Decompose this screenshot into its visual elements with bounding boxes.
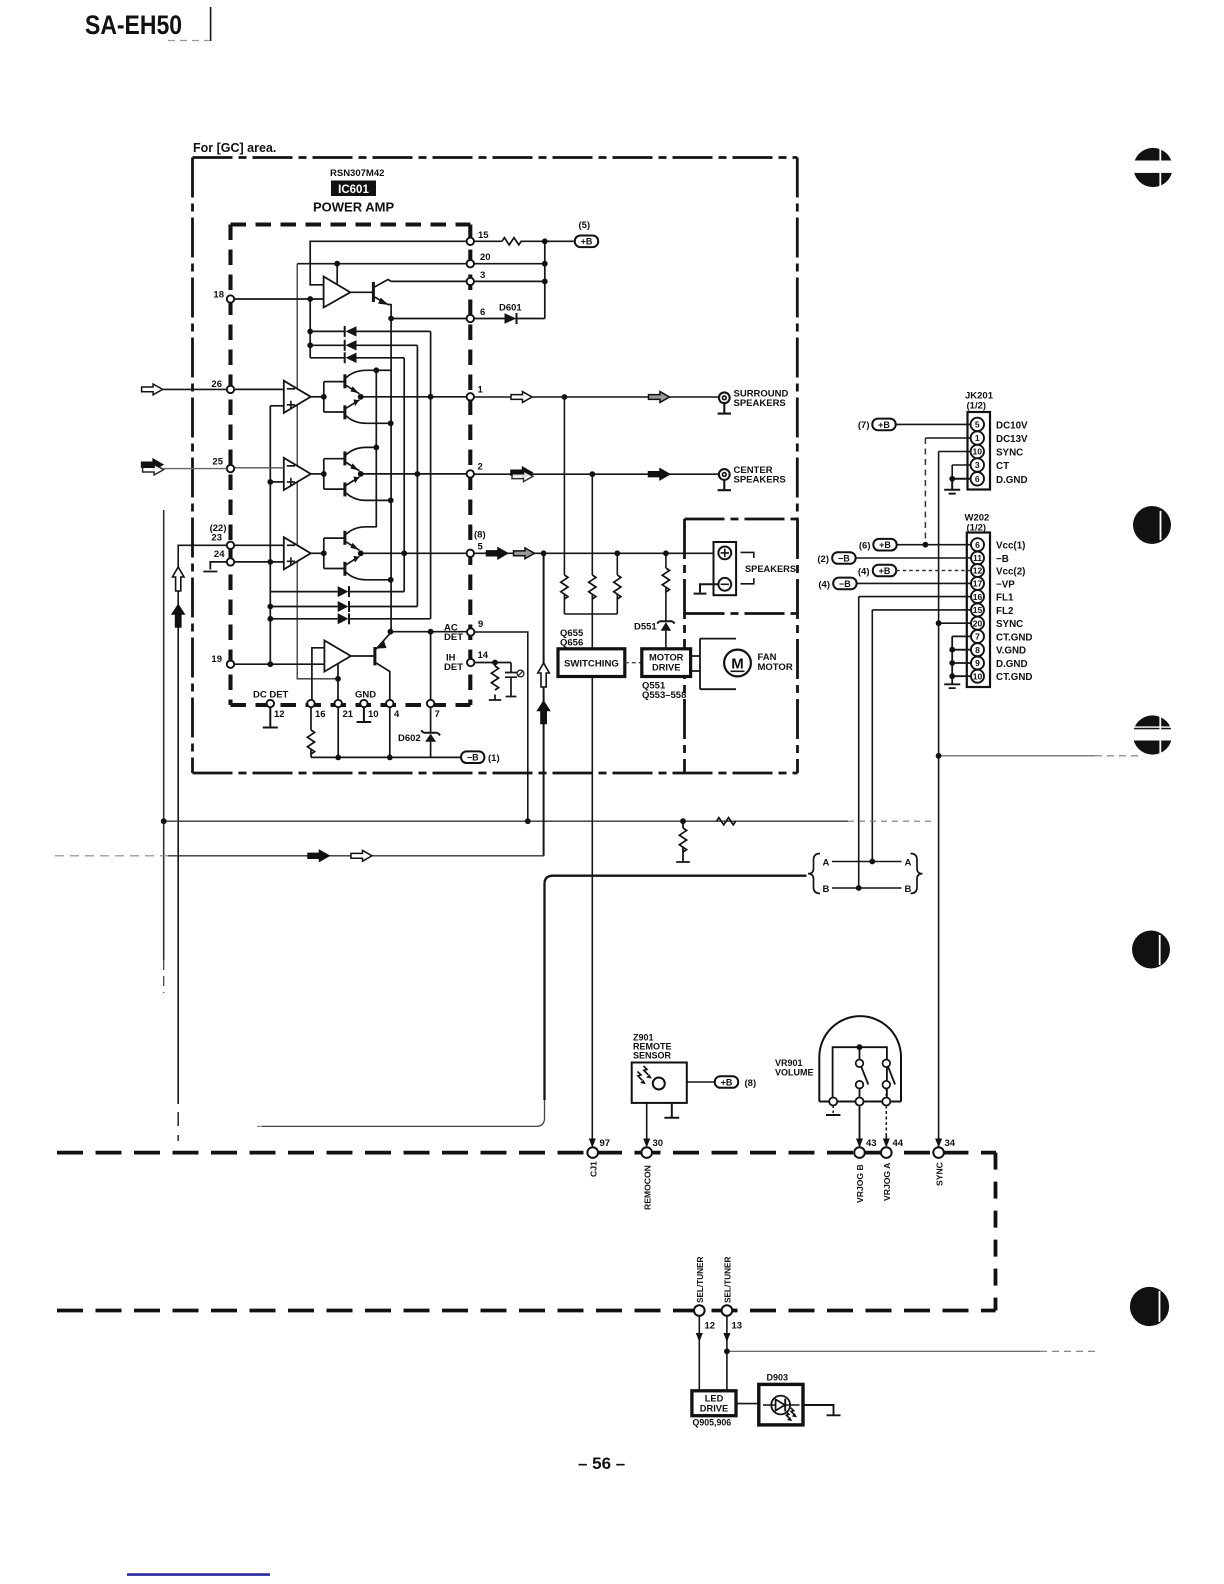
sensor element bbox=[653, 1078, 665, 1090]
wire pin16 to resistor bbox=[310, 707, 312, 757]
label bracket SPEAKERS bbox=[741, 552, 754, 583]
svg-text:DC DET: DC DET bbox=[253, 690, 289, 701]
svg-text:D601: D601 bbox=[499, 303, 522, 314]
junction top center bbox=[857, 1044, 863, 1050]
wire +B to JK201 pin5 bbox=[896, 423, 971, 425]
remote sensor Z901 body bbox=[632, 1063, 687, 1103]
junction row1 R1 bbox=[562, 394, 568, 400]
wire pin6 row (inside) bbox=[391, 318, 470, 320]
junction pin24 rail bbox=[267, 559, 273, 565]
arrow line B black bbox=[308, 850, 329, 861]
junction pin13 branch bbox=[724, 1348, 730, 1354]
svg-text:(6): (6) bbox=[859, 541, 871, 552]
wire JK201 pin10 SYNC long drop bbox=[939, 452, 971, 1148]
registration mark 5 (solid circle) bbox=[1130, 1287, 1169, 1326]
svg-text:5: 5 bbox=[478, 542, 484, 553]
feedback rail x=430.6 bbox=[430, 331, 432, 618]
svg-text:23: 23 bbox=[211, 533, 222, 544]
wire Z901 to +B bbox=[687, 1081, 715, 1083]
arrow up black on trunk bbox=[538, 702, 550, 724]
svg-text:25: 25 bbox=[212, 457, 223, 468]
arrow row1 a bbox=[511, 392, 532, 403]
supply rail x=376.3 bbox=[375, 370, 377, 527]
junction ch3 lower col bbox=[388, 577, 394, 583]
arrow into pin 26 bbox=[142, 384, 163, 395]
wire pin12 to LED DRIVE bbox=[698, 1316, 700, 1391]
svg-text:20: 20 bbox=[480, 252, 491, 263]
pin 14 bbox=[467, 659, 474, 666]
capacitor note symbol bbox=[517, 670, 524, 677]
svg-text:LED: LED bbox=[705, 1394, 724, 1404]
W202 pin 12 bbox=[971, 564, 984, 577]
svg-text:DC10V: DC10V bbox=[996, 421, 1028, 432]
VR901 dome body bbox=[819, 1016, 901, 1101]
svg-text:SA-EH50: SA-EH50 bbox=[85, 10, 182, 40]
ground stub at pin24 bbox=[203, 562, 227, 572]
svg-text:24: 24 bbox=[214, 549, 225, 560]
diode D551 bbox=[657, 621, 675, 630]
arrow row1 b bbox=[649, 392, 670, 403]
svg-text:11: 11 bbox=[973, 553, 982, 563]
svg-text:34: 34 bbox=[945, 1138, 956, 1149]
junction ch2 lower col bbox=[388, 498, 394, 504]
svg-text:SYNC: SYNC bbox=[996, 619, 1023, 630]
W202 pin 7 bbox=[971, 630, 984, 643]
svg-text:V.GND: V.GND bbox=[996, 646, 1026, 657]
svg-text:POWER AMP: POWER AMP bbox=[313, 200, 394, 215]
wire output row 1 (pin1 to SURROUND) bbox=[474, 396, 719, 398]
svg-text:SPEAKERS: SPEAKERS bbox=[745, 563, 796, 574]
wire channel-1 output row to pin 1 bbox=[361, 396, 467, 398]
svg-text:10: 10 bbox=[973, 671, 983, 681]
ground at VR901 left pin bbox=[832, 1106, 834, 1115]
junction line A / AC DET bbox=[525, 818, 531, 824]
wire op-amp 3 output bbox=[311, 552, 324, 554]
svg-text:REMOCON: REMOCON bbox=[642, 1165, 652, 1210]
arrow row5 open bbox=[514, 548, 535, 559]
resistor bus to SWITCHING bbox=[564, 614, 617, 649]
svg-text:26: 26 bbox=[211, 379, 222, 390]
svg-text:43: 43 bbox=[866, 1138, 877, 1149]
svg-text:RSN307M42: RSN307M42 bbox=[330, 168, 384, 179]
junction pin5 trunk bbox=[541, 550, 547, 556]
svg-text:20: 20 bbox=[973, 618, 983, 628]
svg-text:3: 3 bbox=[480, 270, 485, 281]
svg-text:(8): (8) bbox=[745, 1078, 757, 1089]
svg-text:9: 9 bbox=[478, 619, 483, 630]
svg-text:SYNC: SYNC bbox=[934, 1162, 944, 1186]
wire channel-2 output row to pin 2 bbox=[361, 473, 467, 475]
SPEAKERS connector body bbox=[714, 542, 737, 595]
junction A row bbox=[869, 859, 875, 865]
arrow into pin 25 (black over open) bbox=[142, 459, 163, 470]
svg-text:Q553–558: Q553–558 bbox=[642, 690, 686, 701]
LED DRIVE block bbox=[692, 1391, 736, 1416]
op-amp channel 3 bbox=[284, 537, 311, 569]
junction Q2 collector bbox=[388, 629, 394, 635]
junction dots right side bbox=[923, 476, 956, 759]
IC601 reference designator (inverted) bbox=[331, 181, 376, 197]
VR901 base pin mid bbox=[856, 1098, 864, 1106]
svg-text:10: 10 bbox=[368, 709, 379, 720]
pin 30 bbox=[641, 1147, 652, 1158]
pin 10 / GND bbox=[360, 700, 367, 707]
svg-text:MOTOR: MOTOR bbox=[649, 653, 684, 663]
junction row5 R4 bbox=[663, 550, 669, 556]
wire SWITCHING down to pin 97 bbox=[591, 677, 593, 1147]
wire A1 output to Q1 base bbox=[350, 291, 373, 293]
output stage splitter channel 3 bbox=[324, 538, 345, 568]
junction -B bus pin21 bbox=[335, 755, 341, 761]
registration mark 4 (solid circle) bbox=[1132, 931, 1170, 969]
connector JK201 body bbox=[968, 412, 991, 490]
svg-text:SEL/TUNER: SEL/TUNER bbox=[724, 1257, 733, 1303]
svg-text:16: 16 bbox=[315, 709, 326, 720]
svg-text:(1): (1) bbox=[488, 753, 500, 764]
diode D601 bbox=[505, 313, 517, 324]
svg-text:A: A bbox=[905, 857, 912, 868]
svg-text:−B: −B bbox=[996, 554, 1009, 565]
svg-text:14: 14 bbox=[478, 650, 489, 661]
SWITCHING block bbox=[558, 649, 625, 677]
svg-text:1: 1 bbox=[975, 433, 980, 443]
dashed boundary top (y=1152.6) bbox=[57, 1151, 996, 1155]
svg-text:A: A bbox=[823, 857, 830, 868]
wire contact2 to base (dotted) bbox=[885, 1089, 887, 1098]
op-amp channel 2 bbox=[284, 458, 311, 490]
junction B row bbox=[856, 885, 862, 891]
pin 44 bbox=[881, 1147, 892, 1158]
brace right bbox=[911, 854, 923, 894]
pin 19 bbox=[227, 661, 234, 668]
svg-text:5: 5 bbox=[975, 420, 980, 430]
svg-text:7: 7 bbox=[435, 709, 440, 720]
svg-text:97: 97 bbox=[600, 1138, 611, 1149]
junction Q1 emitter pin6 bbox=[388, 316, 394, 322]
wire speakers minus to ground bbox=[694, 584, 719, 593]
arrow up black on pin23 feed bbox=[172, 605, 184, 627]
pin 23 / (22) bbox=[227, 542, 234, 549]
W202 pin 17 bbox=[971, 577, 984, 590]
svg-text:18: 18 bbox=[213, 290, 224, 301]
junction ch1 fb rail bbox=[428, 394, 434, 400]
wire AC DET to line A bbox=[474, 632, 527, 821]
svg-text:−VP: −VP bbox=[996, 579, 1015, 590]
CENTER SPEAKERS jack bbox=[718, 469, 731, 490]
pin 9 bbox=[467, 628, 474, 635]
switch contact 2 upper bbox=[883, 1060, 891, 1068]
wire Vcc(2) row (dotted) bbox=[896, 570, 971, 572]
junction rail376 top bbox=[373, 367, 379, 373]
resistor R2 drop from row2 bbox=[591, 474, 593, 614]
wire pin7 branch from AC DET row bbox=[430, 632, 432, 703]
transistor upper (channel 1) bbox=[343, 374, 346, 388]
title separator vertical line bbox=[210, 7, 212, 41]
wire FL1 row and drop to B bus bbox=[859, 597, 971, 888]
wire op-amp 2 output bbox=[311, 473, 324, 475]
resistor (IH DET) bbox=[491, 666, 498, 690]
wire AC DET row bbox=[390, 631, 466, 633]
junction pin3 rail bbox=[542, 279, 548, 285]
svg-text:DRIVE: DRIVE bbox=[652, 663, 680, 673]
svg-text:D.GND: D.GND bbox=[996, 475, 1028, 486]
wire pin7 to D602 bbox=[430, 707, 432, 757]
svg-text:CT.GND: CT.GND bbox=[996, 672, 1032, 683]
speakers + terminal bbox=[718, 547, 731, 560]
svg-text:12: 12 bbox=[274, 709, 285, 720]
pin 43 bbox=[854, 1147, 865, 1158]
zener D602 bbox=[421, 730, 440, 741]
link rail376-rail391 bbox=[376, 369, 391, 371]
wire: SEL/TUNER branch to right page margin bbox=[727, 1350, 1040, 1352]
svg-text:2: 2 bbox=[478, 462, 483, 473]
ground at Z901 bbox=[664, 1103, 679, 1118]
wire pin15 to +B via resistor bbox=[474, 240, 574, 242]
pin 2 bbox=[467, 470, 474, 477]
svg-text:21: 21 bbox=[343, 709, 354, 720]
bias diode DA2 bbox=[310, 340, 417, 351]
junction ch1 lower col bbox=[388, 420, 394, 426]
svg-text:MOTOR: MOTOR bbox=[758, 662, 793, 673]
arrowhead at pin34 bbox=[935, 1139, 942, 1148]
pin 18 bbox=[227, 295, 234, 302]
transistor Q2 (protection) bbox=[375, 633, 391, 703]
VR901 base pin left bbox=[829, 1098, 837, 1106]
svg-text:B: B bbox=[823, 884, 830, 895]
transistor Q1 (driver) bbox=[373, 280, 391, 305]
pin 26 bbox=[227, 386, 234, 393]
lower bias diode DB2 bbox=[270, 601, 417, 612]
wire stub from pin20 row to op-amp A1 bbox=[336, 264, 338, 284]
wire pin5 trunk down to line B bbox=[543, 553, 545, 856]
junction ch1 node bbox=[358, 394, 364, 400]
feedback rail x=417.4 bbox=[416, 345, 418, 606]
op-amp channel 1 bbox=[284, 381, 311, 413]
pin 24 bbox=[227, 558, 234, 565]
svg-text:D.GND: D.GND bbox=[996, 659, 1028, 670]
arrow row2 b bbox=[649, 469, 670, 480]
pin 97 bbox=[587, 1147, 598, 1158]
pin 15 bbox=[467, 238, 474, 245]
wire -VP row bbox=[857, 582, 971, 584]
wire LED DRIVE to D903 bbox=[736, 1403, 759, 1405]
junction line A left bbox=[161, 818, 167, 824]
pin 7 bbox=[427, 700, 434, 707]
wire D903 to ground bbox=[803, 1405, 841, 1415]
ground at pin 12 bbox=[263, 707, 278, 728]
svg-text:SYNC: SYNC bbox=[996, 448, 1023, 459]
svg-text:SENSOR: SENSOR bbox=[633, 1051, 672, 1061]
junction gnd chain 10 bbox=[949, 673, 955, 679]
wire pin20 row bbox=[297, 263, 545, 265]
resistor (pin16 to -B) bbox=[307, 730, 314, 754]
feedback rail x=404.2 bbox=[403, 358, 405, 592]
arrow line B open bbox=[351, 850, 372, 861]
transistor lower (channel 3) bbox=[343, 562, 346, 576]
wire C to A/B brace (with jog down-left) bbox=[545, 876, 807, 1100]
svg-text:3: 3 bbox=[975, 460, 980, 470]
wire FL2 row and drop to A bus bbox=[872, 610, 971, 862]
bottom-left blue rule bbox=[127, 1573, 270, 1576]
svg-text:13: 13 bbox=[732, 1321, 743, 1332]
junction pin20 rail bbox=[542, 261, 548, 267]
wire pin4 down bbox=[389, 707, 391, 757]
wire op-amp 1 output bbox=[311, 396, 324, 398]
wire SYNC row bbox=[939, 622, 971, 624]
pin 25 bbox=[227, 465, 234, 472]
wire output row 5 (pin5 to SPEAKERS +) bbox=[474, 552, 718, 554]
wire pin18 node down to bias diodes bbox=[309, 299, 311, 358]
switch contact 1 upper bbox=[856, 1060, 864, 1068]
svg-text:(4): (4) bbox=[818, 580, 830, 591]
wire line A (horizontal bus y=821) bbox=[164, 820, 848, 822]
pin 34 bbox=[933, 1147, 944, 1158]
pin 20 bbox=[467, 260, 474, 267]
arrowhead at pin97 bbox=[589, 1139, 596, 1148]
transistor upper (channel 2) bbox=[343, 451, 346, 465]
wire pin25 input to channel-2 op-amp bbox=[234, 467, 284, 469]
switch contact 2 lower bbox=[883, 1081, 891, 1089]
svg-text:M: M bbox=[731, 656, 744, 673]
op-amp A1 (input stage) bbox=[324, 277, 351, 308]
output stage splitter channel 1 bbox=[324, 382, 345, 412]
wire channel-3 output row to pin 5 bbox=[361, 552, 467, 554]
svg-text:15: 15 bbox=[973, 605, 983, 615]
svg-text:VOLUME: VOLUME bbox=[775, 1068, 814, 1078]
pin 12 / DC DET bbox=[267, 700, 274, 707]
svg-text:(2): (2) bbox=[817, 554, 829, 565]
svg-text:4: 4 bbox=[394, 709, 400, 720]
bias diode DA3 bbox=[310, 352, 404, 363]
svg-text:Q905,906: Q905,906 bbox=[693, 1418, 732, 1428]
wire pin18 input row bbox=[231, 298, 324, 300]
svg-text:– 56 –: – 56 – bbox=[578, 1454, 625, 1473]
junction A2 fb bbox=[335, 676, 341, 682]
junction CT/DGND bbox=[949, 476, 955, 482]
MOTOR DRIVE block bbox=[642, 649, 691, 677]
dashed boundary right vertical bbox=[994, 1153, 998, 1311]
switch contact 1 lower bbox=[856, 1081, 864, 1089]
wire pin26 input to channel-1 op-amp bbox=[234, 388, 284, 390]
svg-text:B: B bbox=[905, 884, 912, 895]
wire channel-1 plus input bbox=[270, 405, 284, 407]
wire VR901 mid pin to pin 43 bbox=[859, 1106, 861, 1147]
svg-text:30: 30 bbox=[653, 1138, 664, 1149]
resistor R3 drop from row5 bbox=[616, 553, 618, 614]
sensor light arrows bbox=[638, 1066, 649, 1080]
W202 pin 11 bbox=[971, 552, 984, 565]
svg-text:(1/2): (1/2) bbox=[967, 401, 987, 412]
resistor R4 / diode D551 branch bbox=[665, 553, 667, 649]
junction row2 R2 bbox=[589, 471, 595, 477]
svg-text:12: 12 bbox=[705, 1321, 716, 1332]
wire arrow to pin26 bbox=[163, 388, 227, 390]
W202 pin 8 bbox=[971, 643, 984, 656]
transistor lower (channel 2) bbox=[343, 482, 346, 496]
wire Z901 output down to pin 30 bbox=[646, 1103, 648, 1146]
wire -B row bbox=[856, 557, 971, 559]
junction SYNC margin bbox=[936, 753, 942, 759]
svg-text:(5): (5) bbox=[579, 220, 591, 231]
junction gnd chain 9 bbox=[949, 660, 955, 666]
VR901 base pin right bbox=[882, 1098, 890, 1106]
wire pin21 down bbox=[337, 707, 339, 757]
plus-input rail x=270.3 (pin24 reference) bbox=[269, 406, 271, 664]
junction diode DA2 bbox=[307, 342, 313, 348]
pin 16 bbox=[307, 700, 314, 707]
wire pin19 row bbox=[234, 663, 324, 665]
wire JK201 pin1 DC13V (dashed drop) bbox=[925, 437, 970, 439]
pin 21 bbox=[335, 700, 342, 707]
output stage splitter channel 2 bbox=[324, 459, 345, 489]
wire pin24 to channel-3 plus input bbox=[234, 561, 284, 563]
speakers - terminal bbox=[718, 578, 731, 591]
junction pin18 node bbox=[307, 296, 313, 302]
title separator dashed underline bbox=[168, 40, 210, 42]
svg-text:17: 17 bbox=[973, 579, 983, 589]
svg-text:SEL/TUNER: SEL/TUNER bbox=[696, 1257, 705, 1303]
IC601 package outline (dashed box) bbox=[231, 225, 471, 706]
junction pin20/A1 bbox=[334, 261, 340, 267]
resistor R1 drop from row1 bbox=[563, 397, 565, 614]
svg-text:D551: D551 bbox=[634, 622, 657, 633]
svg-text:VRJOG A: VRJOG A bbox=[882, 1163, 892, 1201]
svg-text:8: 8 bbox=[975, 645, 980, 655]
svg-text:FL1: FL1 bbox=[996, 593, 1014, 604]
junction IH DET bbox=[492, 660, 498, 666]
brace left bbox=[808, 854, 820, 894]
wire vertical x=163.7 bbox=[163, 510, 165, 960]
dashed boundary bottom (y=1310.5) bbox=[57, 1309, 996, 1313]
svg-text:15: 15 bbox=[478, 230, 489, 241]
wire channel-2 plus input bbox=[270, 481, 284, 483]
arrow row2 a (black over open) bbox=[511, 467, 532, 478]
svg-text:DET: DET bbox=[444, 662, 463, 673]
W202 pin 9 bbox=[971, 657, 984, 670]
wire IH DET network bbox=[474, 663, 517, 701]
junction ch2 plus bbox=[267, 479, 273, 485]
svg-text:GND: GND bbox=[355, 690, 376, 701]
svg-text:Vcc(1): Vcc(1) bbox=[996, 541, 1025, 552]
W202 pin 15 bbox=[971, 603, 984, 616]
junction ch1 out bbox=[321, 394, 327, 400]
GC area boundary box (dash-dot) bbox=[193, 158, 798, 774]
junction DB3 anode bbox=[267, 616, 273, 622]
bias rail from pin20 down to pin21 network bbox=[297, 264, 338, 679]
LED symbol bbox=[763, 1396, 800, 1422]
arrow row5 black bbox=[487, 548, 508, 559]
wire pin6 to D601 to +B rail bbox=[474, 318, 545, 320]
junction DB2 anode bbox=[267, 604, 273, 610]
svg-text:For [GC] area.: For [GC] area. bbox=[193, 141, 276, 155]
fan motor shroud bracket bbox=[691, 639, 736, 690]
svg-text:D602: D602 bbox=[398, 733, 421, 744]
wire pin3 row bbox=[391, 280, 545, 282]
lower bias diode DB1 bbox=[270, 586, 404, 597]
registration mark 2 (solid circle) bbox=[1133, 506, 1171, 544]
wire JK201 pin6 D.GND + ground bbox=[944, 479, 970, 494]
wire pin23 input to channel-3 op-amp bbox=[234, 544, 284, 546]
svg-text:Q656: Q656 bbox=[560, 638, 583, 649]
svg-text:(8): (8) bbox=[474, 530, 486, 541]
junction pin7 branch bbox=[428, 629, 434, 635]
JK201 pin 5 bbox=[971, 418, 984, 431]
wire CT.GND chain bbox=[944, 636, 971, 688]
flag +B (8) bbox=[715, 1076, 738, 1088]
svg-text:SPEAKERS: SPEAKERS bbox=[734, 398, 786, 409]
wire line B (y=856) bbox=[55, 855, 168, 857]
junction SYNC pin20 bbox=[936, 620, 942, 626]
